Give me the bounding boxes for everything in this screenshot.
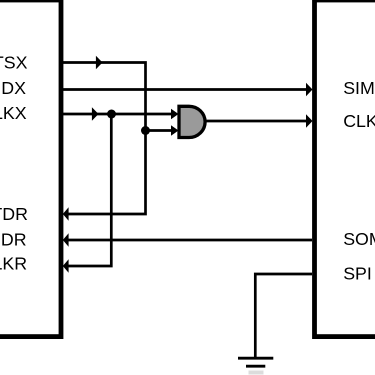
wire SOMI to DR (row5)	[64, 239, 312, 242]
wire SPI pin to ground (horizontal + vertical down)	[255, 274, 312, 358]
arrowhead into DR pin (pointing left)	[63, 233, 69, 247]
svg-text:SOMI: SOMI	[343, 229, 375, 249]
svg-text:DR: DR	[1, 229, 27, 249]
SPI device block U2 (right, partially off-canvas)	[315, 0, 375, 337]
ground symbol: bottom bar (faint, at image edge)	[249, 371, 264, 375]
arrowhead on TSX wire (mid, pointing right)	[96, 56, 103, 69]
svg-text:DX: DX	[1, 78, 26, 98]
arrowhead on CLKX wire (mid, pointing right)	[92, 107, 99, 120]
svg-text:CLKR: CLKR	[0, 254, 27, 274]
wire DX to SIMO (row2)	[63, 88, 311, 91]
arrowhead into CLK pin (pointing right)	[306, 114, 313, 128]
svg-text:TDR: TDR	[0, 204, 28, 224]
svg-text:CLKX: CLKX	[0, 103, 27, 123]
arrowhead into SIMO pin (pointing right)	[306, 83, 313, 97]
wire CLKX to AND gate upper input (row3)	[63, 113, 176, 116]
ground symbol: middle bar	[246, 365, 265, 368]
svg-text:TSX: TSX	[0, 53, 28, 73]
junction node B on loopback vertical (feeds gate lower input)	[141, 126, 150, 135]
arrowhead at gate upper input (pointing right)	[171, 109, 179, 119]
DSP serial-port block U1 (left, partially off-canvas)	[0, 0, 61, 337]
svg-text:SPI: SPI	[343, 263, 372, 283]
svg-text:SIMO: SIMO	[343, 78, 375, 98]
wire gate output to CLK pin of U2	[205, 120, 311, 123]
AND gate U3 (gray fill)	[179, 106, 205, 137]
wire node A down to CLKR (vertical + row6 back to CLKR)	[64, 114, 111, 266]
junction node A on CLKX wire	[107, 110, 116, 119]
arrowhead at gate lower input (pointing right)	[171, 125, 179, 135]
arrowhead into CLKR pin (pointing left)	[63, 259, 69, 273]
wire node B to AND gate lower input	[146, 129, 177, 132]
arrowhead into TDR pin (pointing left)	[63, 207, 69, 221]
wire TSX out to loopback (row1 horizontal + vertical down + row4 back to TDR)	[63, 63, 146, 215]
svg-text:CLKX: CLKX	[343, 111, 375, 131]
ground symbol: top bar	[238, 357, 273, 360]
